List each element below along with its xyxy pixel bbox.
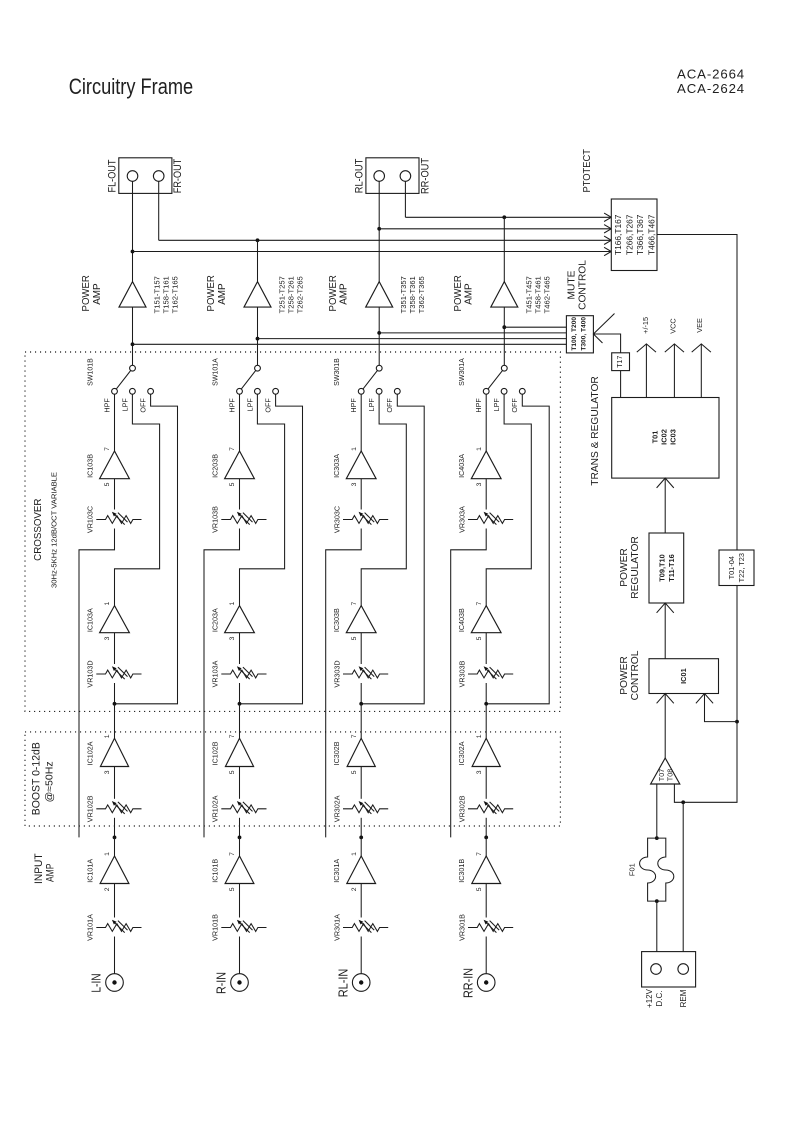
- comparator T07 T08: [651, 758, 680, 784]
- svg-text:T01-04: T01-04: [727, 556, 736, 579]
- wire: output to PTOTECT box: [379, 228, 611, 230]
- common contact: [501, 365, 507, 371]
- svg-text:T458-T461: T458-T461: [533, 276, 542, 313]
- svg-text:VR302A: VR302A: [332, 795, 341, 822]
- svg-text:IC02: IC02: [660, 429, 669, 445]
- wire: input pot to input connector: [360, 937, 362, 974]
- wire: branch to power control: [705, 694, 738, 722]
- svg-text:VR303A: VR303A: [457, 506, 466, 533]
- connector pin circle: [153, 171, 164, 182]
- svg-text:T258-T261: T258-T261: [287, 276, 296, 313]
- potentiometer VR103D: [86, 660, 142, 687]
- wire: input pot to input connector: [485, 937, 487, 974]
- svg-text:5: 5: [351, 636, 358, 640]
- svg-text:7: 7: [351, 734, 358, 738]
- wire: OFF contact bypass to crossover input node: [486, 394, 549, 704]
- svg-text:7: 7: [229, 447, 236, 451]
- svg-text:+12V: +12V: [645, 988, 654, 1008]
- svg-text:3: 3: [476, 482, 483, 486]
- svg-text:5: 5: [104, 482, 111, 486]
- wire: power amp input from switch common: [132, 307, 134, 365]
- svg-text:IC203B: IC203B: [211, 454, 220, 478]
- node: input amp output: [359, 836, 363, 840]
- svg-text:T01: T01: [651, 431, 660, 444]
- junction: output line to PTOTECT: [131, 250, 135, 254]
- potentiometer VR101B: [211, 914, 267, 941]
- switch arm: [115, 368, 133, 391]
- svg-text:VR102A: VR102A: [211, 795, 220, 822]
- svg-text:5: 5: [476, 887, 483, 891]
- svg-text:T162-T165: T162-T165: [171, 276, 180, 313]
- svg-text:IC01: IC01: [679, 668, 688, 684]
- contact HPF: [112, 388, 118, 394]
- wire: upper op-amp input from pot wiper: [114, 479, 116, 510]
- svg-text:VR303C: VR303C: [332, 506, 341, 533]
- svg-text:IC101B: IC101B: [211, 859, 220, 883]
- supply connector +12V D.C. / REM: [642, 952, 696, 1008]
- input connector R-IN: [214, 972, 249, 994]
- svg-text:SW101B: SW101B: [88, 358, 95, 386]
- contact HPF: [358, 388, 364, 394]
- wire: boost pot to input-amp output node: [114, 818, 116, 838]
- potentiometer VR103B: [211, 506, 267, 533]
- wire: input pot to input connector: [239, 937, 241, 974]
- svg-text:POWER: POWER: [328, 275, 339, 312]
- wire: power amp 1 output to connector pin: [132, 181, 134, 281]
- svg-text:T22, T23: T22, T23: [737, 553, 746, 582]
- svg-text:VR103A: VR103A: [211, 660, 220, 687]
- wire: HPF contact to upper op-amp output: [239, 394, 241, 451]
- power amp channel 1 (T151-T157): [81, 275, 179, 314]
- wire: input amp output: [114, 837, 116, 856]
- potentiometer VR303B: [457, 660, 513, 687]
- op-amp IC302A: [457, 734, 500, 774]
- svg-text:T251-T257: T251-T257: [278, 276, 287, 313]
- op-amp IC301B: [457, 852, 500, 891]
- svg-text:CROSSOVER: CROSSOVER: [33, 498, 44, 561]
- connector pin circle: [127, 171, 138, 182]
- svg-text:T462-T465: T462-T465: [542, 276, 551, 313]
- arrow into PTOTECT: [604, 236, 611, 244]
- potentiometer VR302A: [332, 795, 388, 822]
- svg-text:IC103A: IC103A: [86, 608, 95, 632]
- svg-text:IC303A: IC303A: [332, 454, 341, 478]
- wire: boost output up to node: [360, 704, 362, 739]
- svg-text:+/-15: +/-15: [641, 317, 650, 334]
- supply output VCC: [665, 318, 684, 397]
- svg-text:3: 3: [104, 636, 111, 640]
- svg-text:T300, T400: T300, T400: [581, 317, 588, 351]
- supply output VEE: [692, 318, 711, 398]
- svg-text:1: 1: [104, 852, 111, 856]
- wire: input amp output: [360, 837, 362, 856]
- svg-text:HPF: HPF: [102, 398, 111, 413]
- wire: HPF contact to upper op-amp output: [485, 394, 487, 451]
- svg-text:Circuitry Frame: Circuitry Frame: [69, 74, 194, 99]
- svg-text:IC102A: IC102A: [86, 741, 95, 765]
- svg-text:LPF: LPF: [367, 398, 376, 412]
- svg-text:FR-OUT: FR-OUT: [172, 159, 184, 194]
- power control box IC01: [649, 659, 719, 694]
- svg-text:TRANS & REGULATOR: TRANS & REGULATOR: [590, 376, 601, 485]
- wire: power amp 4 output: [503, 217, 505, 281]
- pin REM: [678, 964, 689, 975]
- junction: fuse top: [655, 836, 659, 840]
- arrow into PTOTECT: [604, 213, 611, 221]
- svg-text:POWER: POWER: [206, 275, 217, 312]
- svg-text:ACA-2664: ACA-2664: [677, 67, 745, 82]
- op-amp IC403B: [457, 601, 501, 640]
- node: crossover input (boost output): [113, 702, 117, 706]
- svg-text:VR102B: VR102B: [86, 795, 95, 822]
- potentiometer VR303A: [457, 506, 513, 533]
- op-amp IC101A: [86, 852, 129, 891]
- svg-text:IC102B: IC102B: [211, 741, 220, 765]
- wire: power regulator to trans box: [664, 478, 666, 533]
- svg-text:7: 7: [104, 447, 111, 451]
- svg-text:T358-T361: T358-T361: [408, 276, 417, 313]
- junction: right rail to power control branch: [735, 720, 739, 724]
- wire: mute sense line to MUTE CONTROL: [258, 338, 567, 340]
- wire: boost output up to node: [114, 704, 116, 739]
- svg-text:OFF: OFF: [139, 398, 148, 413]
- svg-text:T17: T17: [617, 356, 624, 368]
- svg-text:SW301B: SW301B: [334, 358, 341, 386]
- junction: REM node: [681, 800, 685, 804]
- transformer box T01-04 T22,T23: [719, 550, 754, 586]
- output connector FL-OUT / FR-OUT: [107, 158, 185, 194]
- junction: power amp 2 output: [256, 238, 260, 242]
- svg-text:PTOTECT: PTOTECT: [582, 148, 593, 192]
- op-amp IC102B: [211, 734, 254, 774]
- wire: power amp input from switch common: [503, 307, 505, 365]
- contact LPF: [130, 388, 136, 394]
- svg-text:HPF: HPF: [474, 398, 483, 413]
- op-amp IC403A: [457, 447, 501, 487]
- svg-text:L-IN: L-IN: [89, 973, 104, 992]
- arrow into mute control: [593, 314, 614, 344]
- svg-text:5: 5: [351, 770, 358, 774]
- model numbers: [677, 67, 745, 97]
- svg-text:F01: F01: [628, 863, 637, 876]
- wire: input amp input from pot: [360, 884, 362, 918]
- wire: input pot to input connector: [114, 937, 116, 974]
- svg-text:IC301A: IC301A: [332, 859, 341, 883]
- contact OFF: [273, 388, 279, 394]
- wire: trans box to T17: [620, 371, 622, 398]
- protect relay box T166,T167 T266,T267 T366,T367 T466,T467: [611, 199, 657, 271]
- svg-text:VR303D: VR303D: [332, 660, 341, 687]
- svg-text:1: 1: [476, 734, 483, 738]
- wire: connector pin drop: [158, 181, 160, 240]
- contact OFF: [148, 388, 154, 394]
- svg-text:7: 7: [229, 852, 236, 856]
- svg-text:T100, T200: T100, T200: [571, 317, 578, 351]
- wire: OFF contact bypass to crossover input node: [240, 394, 303, 704]
- label POWER REGULATOR: [619, 536, 641, 598]
- wire: lower pot to crossover input node: [239, 683, 241, 704]
- wire: power amp input from switch common: [378, 307, 380, 365]
- power amp channel 4 (T451-T457): [453, 275, 551, 314]
- svg-text:R-IN: R-IN: [214, 972, 229, 994]
- switch SW301B (HPF/LPF/OFF): [334, 358, 400, 413]
- svg-text:IC203A: IC203A: [211, 608, 220, 632]
- potentiometer VR101A: [86, 914, 142, 941]
- svg-text:AMP: AMP: [92, 283, 103, 304]
- power regulator box T09,T10 T11-T16: [649, 533, 684, 603]
- svg-text:SW301A: SW301A: [459, 358, 466, 386]
- junction: output line to PTOTECT: [377, 227, 381, 231]
- junction: mute tap: [502, 325, 506, 329]
- junction: mute tap: [377, 331, 381, 335]
- svg-text:OFF: OFF: [510, 398, 519, 413]
- switch arm: [486, 368, 504, 391]
- svg-text:POWER: POWER: [619, 656, 630, 695]
- common contact: [255, 365, 261, 371]
- svg-text:1: 1: [351, 852, 358, 856]
- wire: input amp output: [239, 837, 241, 856]
- svg-text:ACA-2624: ACA-2624: [677, 81, 745, 96]
- svg-text:VR302B: VR302B: [457, 795, 466, 822]
- svg-text:FL-OUT: FL-OUT: [107, 159, 119, 192]
- transformer T17: [612, 353, 630, 371]
- node: crossover input (boost output): [484, 702, 488, 706]
- svg-text:1: 1: [104, 601, 111, 605]
- svg-text:5: 5: [229, 887, 236, 891]
- wire: lower op-amp input from pot wiper: [239, 633, 241, 664]
- wire: REM node to REM pin: [682, 802, 684, 963]
- op-amp IC103A: [86, 601, 130, 640]
- wire: power amp 2 output: [257, 240, 259, 281]
- wire: boost output up to node: [239, 704, 241, 739]
- wire: lower op-amp input from pot wiper: [485, 633, 487, 664]
- wire: upper op-amp input from pot wiper: [485, 479, 487, 510]
- svg-text:LPF: LPF: [245, 398, 254, 412]
- crossover section label: [33, 472, 59, 588]
- svg-text:VR103C: VR103C: [86, 506, 95, 533]
- potentiometer VR102A: [211, 795, 267, 822]
- wire: boost amp input from pot: [360, 767, 362, 799]
- svg-text:RR-IN: RR-IN: [460, 968, 475, 998]
- wire: boost amp input from pot: [114, 767, 116, 799]
- wire: input amp input from pot: [114, 884, 116, 918]
- potentiometer VR103A: [211, 660, 267, 687]
- svg-text:T451-T457: T451-T457: [524, 276, 533, 313]
- fuse F01: [628, 838, 674, 901]
- op-amp IC101B: [211, 852, 254, 891]
- svg-text:7: 7: [229, 734, 236, 738]
- svg-text:OFF: OFF: [264, 398, 273, 413]
- node: crossover input (boost output): [359, 702, 363, 706]
- potentiometer VR102B: [86, 795, 142, 822]
- svg-text:3: 3: [229, 636, 236, 640]
- svg-text:VR101B: VR101B: [211, 914, 220, 941]
- arrow into trans box: [657, 478, 674, 488]
- junction: fuse bottom: [655, 899, 659, 903]
- wire: OFF contact bypass to crossover input node: [115, 394, 178, 704]
- wire: T07/T08 right input from REM node: [674, 784, 683, 802]
- label POWER CONTROL: [619, 650, 641, 700]
- svg-text:HPF: HPF: [227, 398, 236, 413]
- connector pin circle: [400, 171, 411, 182]
- svg-text:LPF: LPF: [492, 398, 501, 412]
- svg-text:VCC: VCC: [669, 318, 678, 333]
- wire: mute sense line to MUTE CONTROL: [504, 326, 566, 328]
- wire: LPF contact to lower op-amp output: [115, 394, 160, 605]
- svg-text:T366,T367: T366,T367: [635, 214, 645, 255]
- svg-text:3: 3: [351, 482, 358, 486]
- svg-text:CONTROL: CONTROL: [630, 650, 641, 700]
- switch SW301A (HPF/LPF/OFF): [459, 358, 525, 413]
- switch SW101B (HPF/LPF/OFF): [88, 358, 154, 413]
- svg-text:POWER: POWER: [81, 275, 92, 312]
- junction: mute tap: [256, 337, 260, 341]
- svg-text:30Hz-5KHz 12dB/OCT VARIABLE: 30Hz-5KHz 12dB/OCT VARIABLE: [50, 472, 59, 588]
- svg-text:IC301B: IC301B: [457, 859, 466, 883]
- svg-text:AMP: AMP: [339, 283, 350, 304]
- svg-text:RL-IN: RL-IN: [335, 969, 350, 998]
- connector pin circle: [374, 171, 385, 182]
- svg-text:T262-T265: T262-T265: [296, 276, 305, 313]
- wire: connector pin drop: [404, 181, 406, 217]
- svg-text:T266,T267: T266,T267: [625, 214, 635, 255]
- svg-text:D.C.: D.C.: [655, 991, 664, 1007]
- svg-text:5: 5: [229, 482, 236, 486]
- wire: boost pot to input-amp output node: [360, 818, 362, 838]
- op-amp IC203A: [211, 601, 255, 640]
- node: input amp output: [238, 836, 242, 840]
- potentiometer VR303C: [332, 506, 388, 533]
- op-amp IC303B: [332, 601, 376, 640]
- op-amp IC103B: [86, 447, 130, 487]
- arrow into PTOTECT: [604, 247, 611, 255]
- svg-text:REGULATOR: REGULATOR: [630, 536, 641, 598]
- output connector RL-OUT / RR-OUT: [354, 158, 432, 194]
- svg-text:VR101A: VR101A: [86, 914, 95, 941]
- potentiometer VR303D: [332, 660, 388, 687]
- svg-text:5: 5: [229, 770, 236, 774]
- wire: T17 to mute control: [593, 334, 620, 353]
- junction: mute tap: [131, 342, 135, 346]
- svg-text:IC403A: IC403A: [457, 454, 466, 478]
- input connector RR-IN: [460, 968, 495, 998]
- pin +12V D.C.: [651, 964, 662, 975]
- label MUTE CONTROL: [566, 260, 588, 310]
- common contact: [130, 365, 136, 371]
- svg-text:7: 7: [476, 852, 483, 856]
- wire: upper pot to pre-boost bypass: [451, 529, 487, 838]
- svg-text:POWER: POWER: [453, 275, 464, 312]
- op-amp IC102A: [86, 734, 129, 774]
- svg-text:T166,T167: T166,T167: [613, 214, 623, 255]
- svg-text:T351-T357: T351-T357: [399, 276, 408, 313]
- svg-text:VR301A: VR301A: [332, 914, 341, 941]
- svg-text:1: 1: [229, 601, 236, 605]
- wire: input amp input from pot: [485, 884, 487, 918]
- svg-text:5: 5: [476, 636, 483, 640]
- input amp section label: [33, 853, 57, 884]
- wire: mute sense line to MUTE CONTROL: [379, 332, 566, 334]
- switch SW101A (HPF/LPF/OFF): [213, 358, 279, 413]
- contact HPF: [483, 388, 489, 394]
- wire: LPF contact to lower op-amp output: [486, 394, 531, 605]
- svg-text:IC03: IC03: [668, 429, 677, 445]
- wire: lower pot to crossover input node: [485, 683, 487, 704]
- svg-text:POWER: POWER: [619, 548, 630, 587]
- wire: boost output up to node: [485, 704, 487, 739]
- node: input amp output: [113, 836, 117, 840]
- potentiometer VR301A: [332, 914, 388, 941]
- arrow into power regulator: [657, 603, 674, 613]
- svg-text:VR103D: VR103D: [86, 660, 95, 687]
- wire: power control to power regulator: [664, 603, 666, 659]
- power amp channel 2 (T251-T257): [206, 275, 304, 314]
- svg-text:T362-T365: T362-T365: [417, 276, 426, 313]
- svg-text:HPF: HPF: [349, 398, 358, 413]
- wire: OFF contact bypass to crossover input node: [361, 394, 424, 704]
- svg-text:2: 2: [104, 887, 111, 891]
- svg-text:2: 2: [351, 887, 358, 891]
- trans &amp; regulator box T01 IC02 IC03: [612, 398, 719, 479]
- wire: boost pot to input-amp output node: [239, 818, 241, 838]
- wire: protect box to right rail: [657, 235, 737, 551]
- svg-text:T08: T08: [666, 769, 675, 781]
- svg-text:3: 3: [476, 770, 483, 774]
- power amp channel 3 (T351-T357): [328, 275, 426, 314]
- wire: output run to PTOTECT box: [405, 216, 611, 218]
- svg-text:1: 1: [351, 447, 358, 451]
- svg-text:MUTE: MUTE: [566, 270, 577, 299]
- svg-text:AMP: AMP: [464, 283, 475, 304]
- potentiometer VR103C: [86, 506, 142, 533]
- svg-text:T07: T07: [657, 769, 666, 781]
- wire: T07/T08 output to power control: [664, 694, 666, 759]
- wire: LPF contact to lower op-amp output: [240, 394, 285, 605]
- op-amp IC303A: [332, 447, 376, 487]
- svg-text:AMP: AMP: [45, 864, 57, 883]
- contact OFF: [394, 388, 400, 394]
- input connector L-IN: [89, 973, 124, 992]
- wire: upper pot to pre-boost bypass: [204, 529, 240, 838]
- wire: boost amp input from pot: [239, 767, 241, 799]
- contact LPF: [255, 388, 261, 394]
- switch arm: [361, 368, 379, 391]
- common contact: [376, 365, 382, 371]
- svg-text:IC103B: IC103B: [86, 454, 95, 478]
- svg-text:IC101A: IC101A: [86, 859, 95, 883]
- svg-text:CONTROL: CONTROL: [578, 260, 589, 310]
- svg-text:OFF: OFF: [385, 398, 394, 413]
- wire: HPF contact to upper op-amp output: [360, 394, 362, 451]
- wire: power amp input from switch common: [257, 307, 259, 365]
- svg-text:INPUT: INPUT: [33, 853, 45, 884]
- svg-text:IC302A: IC302A: [457, 741, 466, 765]
- wire: HPF contact to upper op-amp output: [114, 394, 116, 451]
- svg-text:T09,T10: T09,T10: [657, 554, 666, 582]
- mute control box T100,T200 T300,T400: [566, 316, 593, 353]
- svg-text:T158-T161: T158-T161: [162, 276, 171, 313]
- op-amp IC203B: [211, 447, 255, 487]
- wire: lower pot to crossover input node: [360, 683, 362, 704]
- svg-text:T466,T467: T466,T467: [647, 214, 657, 255]
- svg-text:7: 7: [351, 601, 358, 605]
- svg-text:REM: REM: [679, 989, 688, 1007]
- wire: lower pot to crossover input node: [114, 683, 116, 704]
- svg-text:RR-OUT: RR-OUT: [419, 158, 431, 194]
- svg-text:3: 3: [104, 770, 111, 774]
- op-amp IC301A: [332, 852, 375, 891]
- svg-text:VR301B: VR301B: [457, 914, 466, 941]
